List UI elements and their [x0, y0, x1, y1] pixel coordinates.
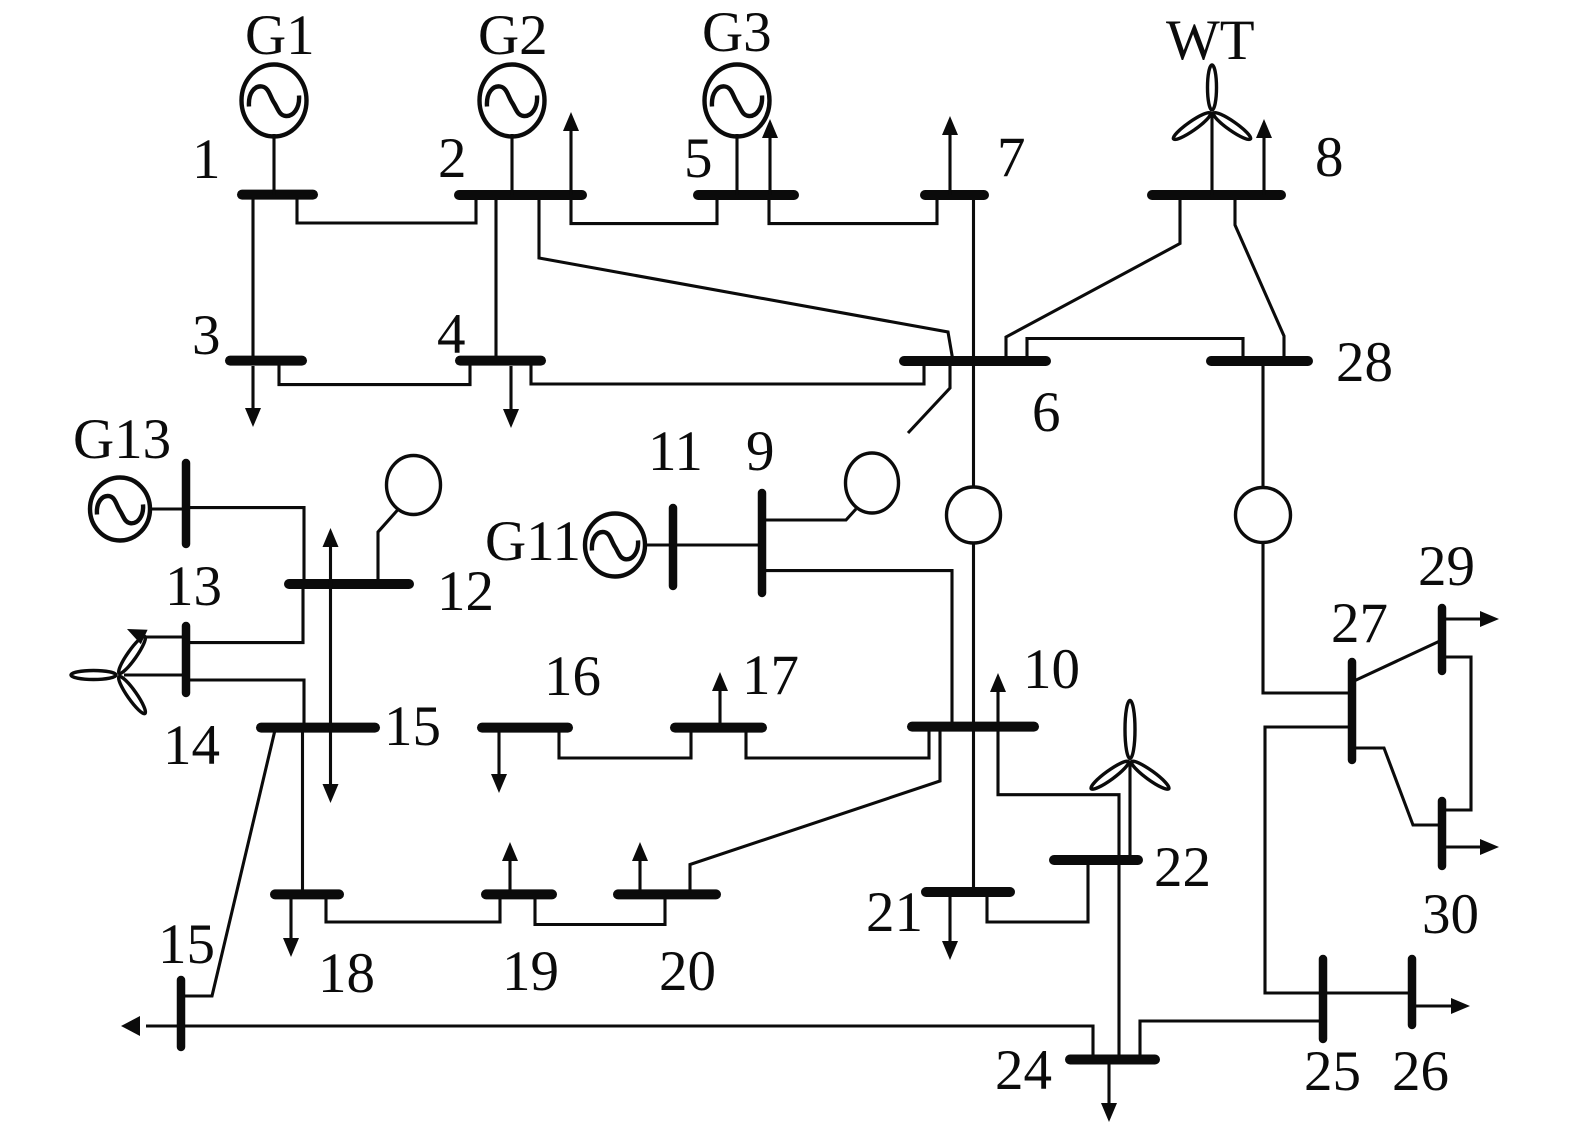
wire line 27-29 — [1354, 640, 1442, 681]
wind turbine WT at bus 8 — [1171, 65, 1253, 195]
svg-text:16: 16 — [544, 645, 601, 708]
bus 5 — [698, 190, 794, 200]
wire line 10-22-24 — [998, 727, 1119, 1055]
svg-text:G3: G3 — [702, 1, 772, 64]
wire line 2-4 — [494, 195, 497, 361]
wire line 8-28 — [1235, 195, 1284, 361]
bus 7 — [925, 190, 984, 200]
bus 14 — [182, 626, 191, 693]
bus 15 lower — [177, 980, 186, 1047]
wire line 14-15 — [189, 680, 304, 728]
wire line 18-19 — [326, 894, 500, 922]
bus 25 — [1319, 959, 1328, 1039]
wire line 9-10 — [765, 571, 952, 727]
bus 30 — [1438, 801, 1447, 866]
svg-text:G13: G13 — [73, 408, 171, 471]
wire line 13-12 — [189, 508, 304, 584]
wire line 1-2 — [297, 195, 476, 223]
bus 13 — [182, 463, 191, 544]
bus 22 — [1054, 855, 1138, 865]
svg-text:10: 10 — [1023, 638, 1080, 701]
wire line 17-10 — [746, 728, 929, 758]
load arrow bus 21 — [942, 896, 958, 960]
load arrow bus 14 — [124, 622, 183, 645]
load arrow bus 3 — [245, 366, 261, 427]
bus 18 — [275, 889, 339, 899]
wire condenser stem at bus 9 — [765, 509, 856, 520]
generator G2 — [480, 65, 545, 196]
bus 12 — [289, 579, 409, 589]
bus 16 — [482, 723, 568, 733]
load arrow bus 18 — [283, 899, 299, 957]
svg-text:4: 4 — [437, 303, 466, 366]
bus 11 — [669, 508, 678, 586]
svg-text:19: 19 — [502, 940, 559, 1003]
svg-text:29: 29 — [1418, 535, 1475, 598]
svg-text:1: 1 — [192, 128, 221, 191]
bus 15 — [261, 723, 375, 733]
wire line 6-10 condenser drop — [972, 543, 975, 888]
load arrow bus 26 — [1416, 998, 1470, 1014]
load arrows bus 12 and bus 15 — [323, 528, 339, 803]
svg-text:25: 25 — [1304, 1040, 1361, 1103]
wire line 15-18 — [301, 728, 304, 895]
load arrow bus 4 — [503, 366, 519, 428]
generator G11 — [585, 514, 645, 577]
svg-text:8: 8 — [1315, 126, 1344, 189]
bus 19 — [486, 889, 552, 899]
wire line 25-27 and 25-26 — [1265, 727, 1412, 993]
load arrow bus 24 — [1101, 1064, 1117, 1122]
condenser at bus 12 — [387, 456, 441, 515]
svg-text:3: 3 — [192, 304, 221, 367]
load arrow bus 5 — [762, 119, 778, 195]
svg-text:6: 6 — [1032, 381, 1061, 444]
wire line 6-28 — [1027, 339, 1243, 362]
svg-text:22: 22 — [1154, 836, 1211, 899]
svg-text:G1: G1 — [245, 4, 315, 67]
wire line 10-20 — [690, 727, 940, 894]
bus 29 — [1438, 608, 1447, 671]
wire long line to bus 24 — [146, 1026, 1093, 1055]
bus 4 — [460, 356, 541, 366]
wire line 29-30 — [1445, 657, 1471, 810]
svg-text:9: 9 — [746, 420, 775, 483]
bus 26 — [1408, 959, 1417, 1025]
wire G11 to bus 9 — [645, 543, 762, 546]
bus 1 — [242, 190, 313, 200]
svg-text:30: 30 — [1422, 883, 1479, 946]
bus 10 — [912, 722, 1034, 732]
condenser on line 6-10 — [947, 487, 1001, 543]
wire condenser stem at bus 12 — [378, 510, 398, 584]
wind turbine at bus 14 — [71, 634, 149, 716]
load arrow bus 7 — [942, 116, 958, 195]
svg-text:20: 20 — [659, 940, 716, 1003]
load arrow bus 30 — [1445, 839, 1499, 855]
wire line 1-3 — [251, 195, 254, 361]
bus 6 — [904, 356, 1046, 366]
wire line 27-30 — [1354, 748, 1442, 825]
generator G13 — [90, 478, 150, 541]
wire line 2-6 — [539, 195, 953, 361]
svg-text:G11: G11 — [485, 510, 581, 573]
load arrow bus 29 — [1445, 611, 1499, 627]
wire line 15 to lower bus 15 — [185, 730, 275, 996]
wind turbine at bus 22 — [1089, 701, 1172, 793]
generator G1 — [242, 65, 307, 196]
wire line 3-4 — [279, 361, 470, 385]
wire line 19-20 — [535, 894, 665, 924]
wire line 2-5 — [571, 195, 717, 224]
svg-text:13: 13 — [165, 555, 222, 618]
svg-text:27: 27 — [1331, 592, 1388, 655]
svg-text:26: 26 — [1392, 1040, 1449, 1103]
svg-text:14: 14 — [163, 714, 220, 777]
svg-text:11: 11 — [648, 420, 703, 483]
wire line 16-17 — [559, 728, 691, 758]
load arrow bus 17 — [712, 672, 728, 723]
condenser on line 28-27 — [1236, 488, 1291, 543]
svg-text:15: 15 — [158, 913, 215, 976]
wire line 4-6 — [531, 361, 924, 384]
svg-text:21: 21 — [866, 881, 923, 944]
svg-text:WT: WT — [1166, 9, 1255, 72]
bus 17 — [675, 723, 762, 733]
wire turbine mast at bus 22 — [1128, 761, 1131, 857]
svg-text:7: 7 — [997, 126, 1026, 189]
wire condenser to bus 27 — [1263, 543, 1348, 694]
bus 28 — [1211, 356, 1308, 366]
wire stub at bus 6 — [908, 361, 950, 433]
wire line 21-22 — [987, 860, 1088, 922]
generator G3 — [705, 65, 770, 196]
svg-text:28: 28 — [1336, 331, 1393, 394]
bus 2 — [459, 190, 582, 200]
svg-text:15: 15 — [384, 695, 441, 758]
load arrow bus 10 — [990, 673, 1006, 722]
bus 8 — [1152, 190, 1281, 200]
wire G13 to bus 13 — [151, 507, 183, 510]
svg-text:12: 12 — [437, 560, 494, 623]
svg-text:24: 24 — [995, 1039, 1052, 1102]
bus 3 — [230, 356, 302, 366]
load arrow bus 19 — [502, 842, 518, 890]
wire line 12-14 — [189, 584, 303, 643]
bus 24 — [1070, 1055, 1155, 1065]
load arrow bus 20 — [632, 842, 648, 890]
wire line 7-6 — [972, 195, 975, 488]
load arrow bus 16 — [491, 732, 507, 793]
load arrow left of lower bus 15 — [121, 1016, 140, 1036]
wire line 24-25 — [1140, 1021, 1323, 1055]
load arrow bus 2 — [563, 112, 579, 195]
load arrow bus 8 — [1256, 119, 1272, 195]
condenser at bus 9 — [846, 453, 899, 513]
wire turbine to bus 14 — [124, 673, 183, 676]
wire line 28 to condenser — [1261, 361, 1264, 488]
bus 20 — [618, 889, 716, 899]
svg-text:17: 17 — [742, 644, 799, 707]
svg-text:5: 5 — [684, 127, 713, 190]
svg-text:G2: G2 — [478, 4, 548, 67]
wire line 5-7 — [769, 195, 937, 224]
bus 27 — [1348, 662, 1357, 760]
bus 21 — [926, 887, 1010, 897]
svg-text:2: 2 — [438, 127, 467, 190]
svg-text:18: 18 — [318, 942, 375, 1005]
wire line 6-8 — [1006, 195, 1180, 361]
bus 9 — [758, 493, 767, 593]
